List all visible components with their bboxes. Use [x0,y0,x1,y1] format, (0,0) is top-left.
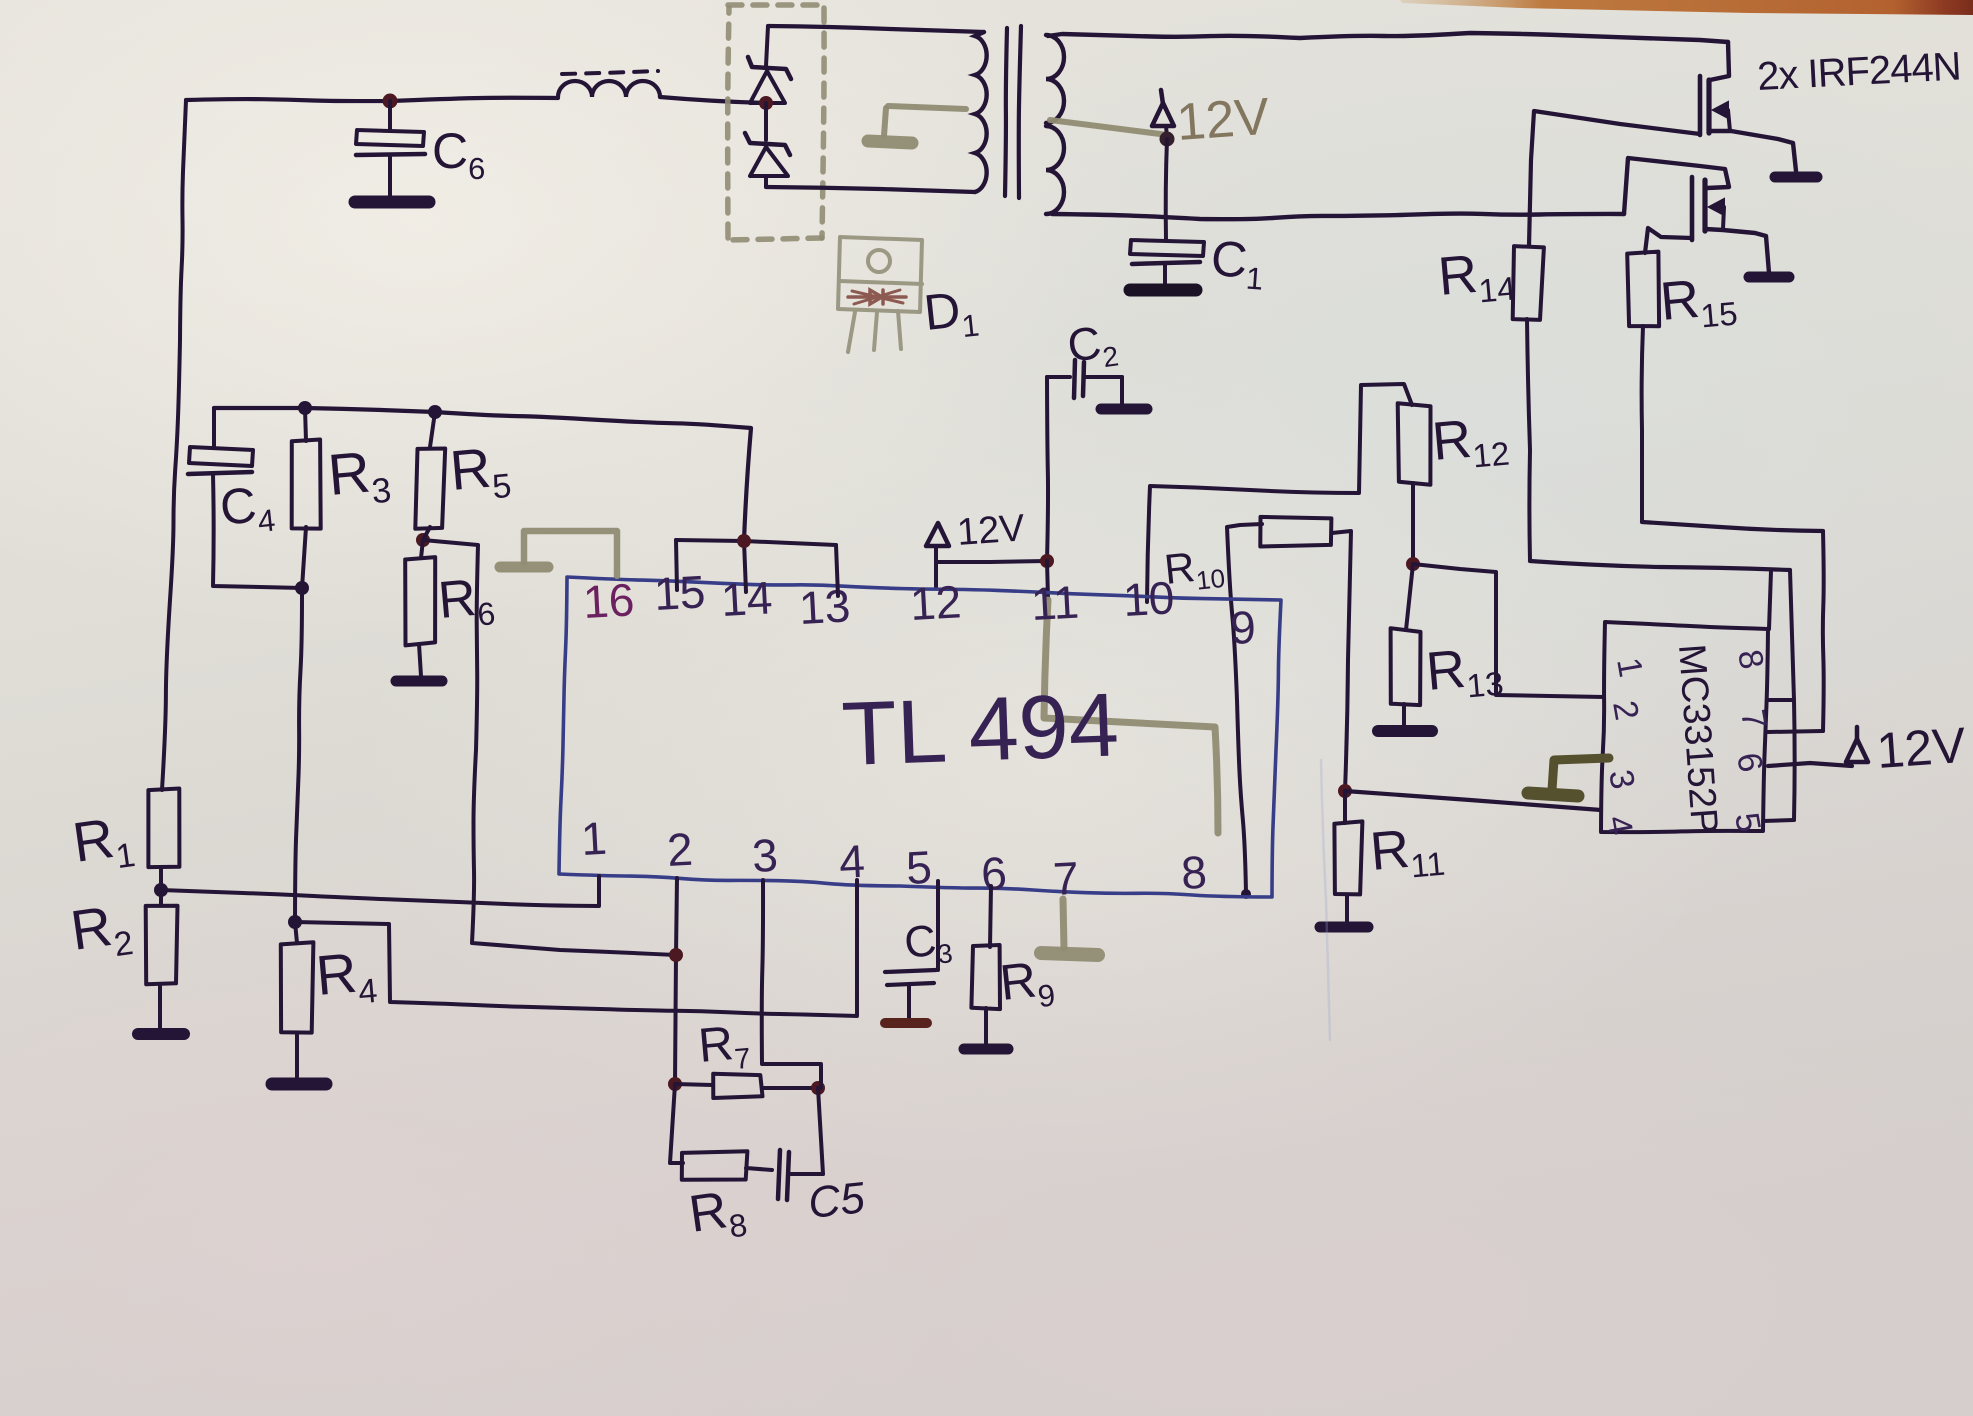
capacitor C3 [885,970,936,1018]
wire: diode top to transformer primary top [768,26,984,32]
capacitor C4 [188,447,253,474]
resistor R7 [675,1074,763,1098]
wire: TL494 pin 3 down to node [762,880,821,1088]
pin 2 label U2 [1605,698,1646,723]
label C6 [432,123,485,186]
pin 8 label U2 [1730,647,1771,672]
resistor R3 [292,408,321,529]
svg-text:8: 8 [1180,846,1208,899]
wire: vertical down to pin7 and pin5 [1763,570,1795,821]
svg-text:C5: C5 [806,1173,868,1228]
label MC33152P [1670,643,1725,836]
ground at Q1 source [1775,172,1817,183]
node: junction R4 top [288,915,302,929]
capacitor C2 [1047,360,1122,404]
wire: TL494 pin 10 up and over to R12 [1147,384,1412,602]
node: junction R7 left [668,1077,682,1091]
node: junction R12/R13 [1406,557,1420,571]
ground below R13 [1378,725,1432,737]
node: junction pin2 wire [669,948,683,962]
svg-text:5: 5 [905,841,933,894]
node: junction at C4/R3 bottom [295,581,309,595]
op-amp driver U2 MC33152P box [1601,622,1768,832]
node: small dot at box bottom edge [1241,889,1251,899]
node: junction at R3 top [298,401,312,415]
pin 9 label U1 [1229,601,1257,654]
svg-text:12V: 12V [1175,88,1272,152]
svg-text:16: 16 [582,573,636,628]
wire: center tap down to C1 [1166,139,1167,240]
svg-text:15: 15 [653,565,707,620]
svg-text:11: 11 [1030,576,1080,630]
transformer core [1005,26,1021,198]
gray internal trace from pin 11 to pin 8 area [1044,600,1218,833]
transformer primary winding [975,32,987,192]
pin 7 label U1 [1052,852,1080,905]
label R3 [325,438,392,515]
12V supply arrow at TL494 pin 12 [926,523,1047,588]
capacitor C1 [1130,240,1204,264]
dashed core line above inductor [562,71,658,74]
wire: junction to U2 pin 2 [1413,564,1604,697]
wire: Q1 gate to R14 [1529,111,1700,246]
wire: secondary top to MOSFET Q1 drain (net A) [1048,33,1728,42]
wire: R2 bottom lead [158,985,162,1028]
transformer secondary winding [1046,35,1064,214]
wire: R5/R6 junction across and down to pin 2 node [423,540,676,955]
pin 3 label U2 [1601,767,1642,792]
label R14 [1436,241,1517,313]
label R4 [314,939,379,1015]
wire: R10 right lead down to R11 node [1332,531,1351,791]
label TL 494 [840,675,1120,785]
wire: top-left horizontal from corner to inductor [186,98,558,101]
pin 1 label U2 [1609,655,1650,680]
wire: R4 node to TL494 pin 4 [295,880,857,1016]
node: center tap junction [1160,132,1175,147]
svg-text:9: 9 [1229,601,1257,654]
label R10 [1162,540,1226,599]
wire: TL494 pin 2 down [675,878,677,1084]
faint blue crease line near R11 [1321,760,1330,1040]
label R11 [1368,816,1447,888]
svg-text:10: 10 [1122,571,1176,626]
wire: branch down to MC33152 pin 8 [1769,571,1771,629]
label R6 [436,567,497,636]
wire: inductor to diode node [660,97,766,103]
wire: R7 right to pin3 node [762,1086,818,1090]
diode symbol inside D1 package [848,290,906,304]
pin 6 label U2 [1729,750,1770,775]
svg-text:1: 1 [580,812,608,865]
svg-text:TL 494: TL 494 [840,675,1120,785]
wire: R11 bottom lead [1345,895,1349,921]
12V supply arrow at transformer center tap [1152,90,1174,137]
pin 5 label U2 [1727,810,1768,835]
svg-text:2: 2 [666,823,694,876]
resistor R10 [1260,517,1331,547]
label R7 [696,1016,752,1079]
resistor R1 [148,789,179,868]
wire: R3 bottom through junction down to R4 [295,527,306,922]
ground below R9 [964,1044,1008,1055]
ground below R6 [396,676,442,687]
node: junction at R5 top [428,405,442,419]
wire: R12 bottom to junction [1411,483,1415,564]
label 12V at pin 12 [956,507,1027,554]
pin 6 label U1 [980,847,1008,900]
label C2 [1064,314,1120,378]
wire: net B up and over to Q2 drain [1624,158,1729,214]
diode D1 package sketch [838,237,922,352]
resistor R13 [1391,564,1421,705]
resistor R5 [415,412,445,529]
resistor R6 [405,540,435,645]
wire: U2 pin 6 to 12V arrow [1768,763,1852,766]
wire: R14 net across to MC33152 pin7/5 branch [1530,561,1790,570]
resistor R9 [971,945,1000,1009]
label C1 [1209,230,1267,297]
pin 1 label U1 [580,812,608,865]
dashed enclosure box around D1 diodes [728,5,824,240]
transistor Q1 (IRF244N) [1700,42,1796,171]
ground below R2 [138,1028,184,1040]
wire: pin2 node down to R8 [670,1084,683,1163]
capacitor C5 [746,1150,823,1200]
svg-text:3: 3 [751,829,779,882]
wire: node down to TL494 pin 11 [1047,561,1048,598]
resistor R12 [1398,403,1431,485]
capacitor C6 [356,130,425,155]
pin 4 label U2 [1599,813,1640,838]
pin 8 label U1 [1180,846,1208,899]
label C4 [217,475,277,543]
wire: C6 bottom lead [388,157,392,197]
node: junction C2 / pin 11 [1040,554,1054,568]
label R13 [1424,636,1505,708]
pin 7 label U2 [1733,707,1774,732]
wire: pin11 node up to C2 [1047,377,1048,561]
pin 5 label U1 [905,841,933,894]
pin 2 label U1 [666,823,694,876]
node: junction R1/R2/pin1 [154,883,168,897]
ground below C2 [1101,404,1147,415]
pin 13 label U1 [798,579,852,634]
svg-text:7: 7 [1052,852,1080,905]
node: junction above pin 14 [737,534,751,548]
ground below C3 (dark red) [885,1018,927,1028]
wire: long left vertical down to R1 [162,100,186,790]
ground below R4 [272,1078,326,1091]
label R2 [67,891,136,970]
wire: R6 bottom lead [419,644,421,676]
transistor Q2 (IRF244N) [1692,177,1769,273]
wire: R14 bottom down [1527,319,1530,561]
ground below R11 [1320,922,1368,933]
ground at Q2 source [1749,272,1789,283]
wire: R15 net across and down to MC33152 pin 6 [1642,522,1824,732]
label 12V at center tap [1175,88,1272,152]
pin 16 label U1 [582,573,636,628]
gray ground marker near pin 16 [500,531,617,576]
wire: R13 bottom lead [1402,704,1406,725]
wire: junction to U2 pin 4 [1345,791,1601,810]
label R8 [686,1179,750,1250]
gray ground at TL494 pin 7 [1041,899,1098,955]
resistor R11 [1334,791,1362,894]
wire: junction to TL494 pin 1 [161,876,599,906]
wire: diode bottom to transformer primary bottom [766,187,975,192]
pin 3 label U1 [751,829,779,882]
wire: C4 bottom lead to R3 vertical [213,474,302,588]
wire: R5 bottom to junction [423,527,430,540]
wire: C6 top lead [388,101,392,130]
resistor R4 [281,922,314,1033]
node: junction R11 / U2 pin4 [1338,784,1352,798]
wire: R3/R5 bus to pins 15-14-13 [214,408,838,596]
label R1 [69,803,138,882]
pin 14 label U1 [720,571,774,626]
resistor R8 [682,1151,748,1180]
resistor R2 [146,890,178,984]
pin 12 label U1 [909,575,963,630]
node: junction R5/R6 [416,533,430,547]
resistor R15 [1627,252,1659,327]
gray center tap wire of secondary [1050,120,1168,135]
wire: R15 bottom down [1642,326,1643,522]
label R15 [1658,266,1739,338]
diode D1a (upper suppressor) [748,26,791,103]
ground below C1 [1130,284,1196,297]
node: junction at C6 top [383,94,398,109]
pin 15 label U1 [653,565,707,620]
pin 4 label U1 [838,835,866,888]
wire: R4 bottom lead [295,1033,299,1077]
label R5 [448,434,513,510]
label C5 [806,1173,868,1228]
svg-text:12V: 12V [956,507,1027,554]
label R12 [1430,406,1511,478]
wire: C1 bottom lead [1163,264,1167,285]
wire: R9 bottom lead [984,1008,988,1043]
svg-text:6: 6 [980,847,1008,900]
wire: TL494 pin 6 down to R9 [990,886,991,947]
diode D1b (lower suppressor) [745,103,790,187]
label R9 [997,950,1057,1018]
pin 10 label U1 [1122,571,1176,626]
inductor L1 (ferrite bead) [558,81,660,97]
pin 11 label U1 [1030,576,1080,630]
ic U1 TL494 outline [559,577,1281,897]
wire: secondary bottom to MOSFET Q2 (net B) [1052,214,1624,220]
label 12V at U2 [1875,717,1968,779]
node: diode junction with main wire [759,96,773,110]
wire: C4 top lead [212,408,216,447]
node: junction R7/C5/pin3 [811,1081,825,1095]
orange table edge strip at top right [1400,0,1973,15]
wire: C5 right up to pin3 node [818,1088,823,1174]
resistor R14 [1513,246,1544,320]
svg-text:12: 12 [909,575,963,630]
svg-text:12V: 12V [1875,717,1968,779]
label D1 [921,280,981,348]
wire: R1 bottom to junction [159,868,163,890]
label 2x IRF244N [1756,44,1961,99]
ground below C6 [355,196,429,209]
wire: R10 left lead down inside TL494 to pin 9 area [1227,524,1262,893]
wire: Q2 gate to R15 [1645,228,1692,253]
svg-text:13: 13 [798,579,852,634]
wire: TL494 pin 5 down to C3 [936,881,940,970]
label C3 [902,914,954,973]
svg-text:4: 4 [838,835,866,888]
gray mains plug symbol at primary [868,106,966,143]
ground marker at U2 pin 3 (olive) [1528,758,1609,796]
12V supply arrow at U2 [1846,727,1868,762]
